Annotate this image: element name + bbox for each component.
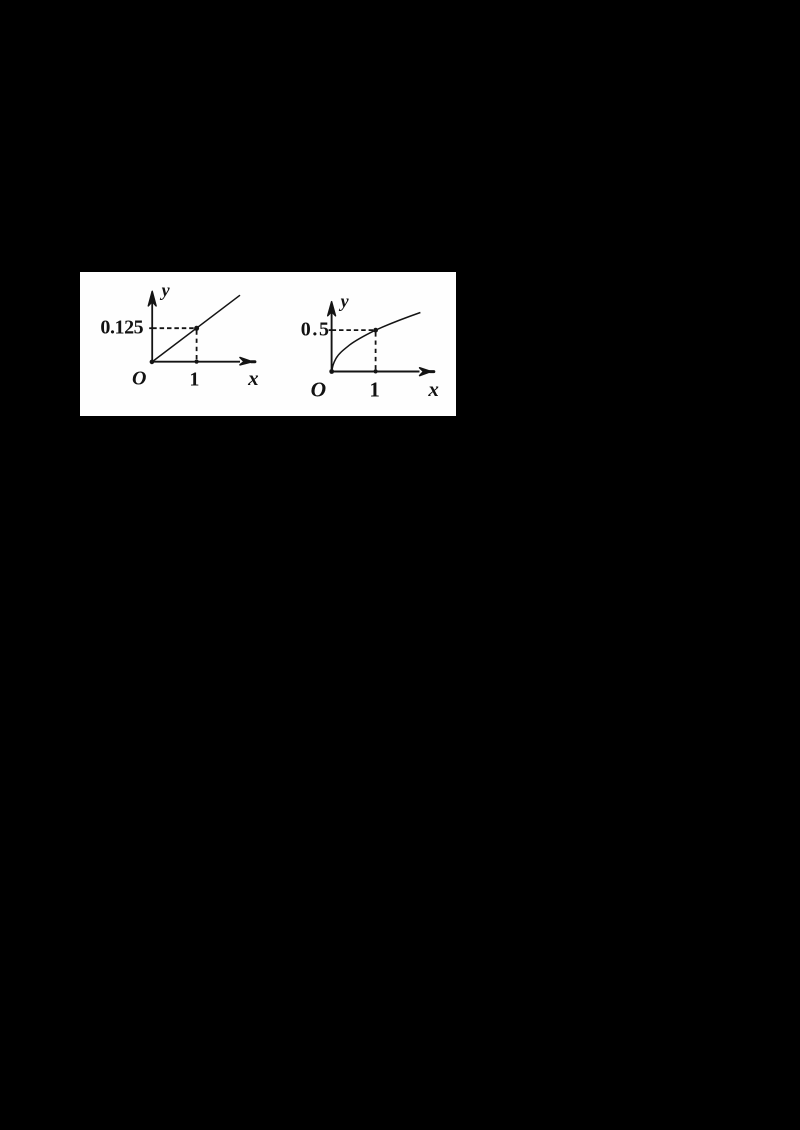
right x-axis [331, 371, 420, 373]
right curve y=0.5*sqrt(x) [332, 313, 421, 372]
right y-axis [331, 308, 333, 372]
right x-axis arrowhead [420, 368, 431, 376]
svg-text:0.125: 0.125 [100, 317, 143, 339]
left diagonal line y=0.125x [152, 295, 240, 362]
white figure panel [80, 272, 456, 416]
svg-text:y: y [339, 291, 350, 311]
right dashed vertical x=1 [375, 332, 377, 371]
svg-text:x: x [427, 377, 439, 401]
left x-axis [151, 361, 240, 363]
right origin dot [329, 369, 334, 374]
svg-text:O: O [311, 377, 327, 401]
svg-text:y: y [160, 280, 171, 300]
right dot on x-axis at x=1 [374, 369, 378, 373]
left y-axis [151, 298, 153, 362]
svg-text:0.5: 0.5 [301, 319, 331, 341]
left dashed horizontal y=0.125 [152, 327, 196, 329]
svg-text:1: 1 [369, 377, 380, 401]
svg-text:1: 1 [189, 369, 199, 391]
svg-text:x: x [247, 366, 259, 390]
left origin dot [150, 360, 155, 365]
left node at (1,0.125) [194, 326, 199, 331]
left y-axis arrowhead [148, 291, 156, 306]
right node at (1,0.5) [373, 328, 378, 333]
left tick on y-axis at 0.125 [149, 327, 152, 329]
right y-axis arrowhead [328, 302, 336, 316]
left x-axis arrow tip dash [250, 360, 257, 363]
right dashed horizontal y=0.5 [332, 329, 376, 331]
left dot on x-axis at x=1 [195, 360, 199, 364]
right x-axis arrow tip dash [428, 370, 435, 373]
right tick on y-axis at 0.5 [329, 329, 332, 331]
left dashed vertical x=1 [196, 330, 198, 361]
svg-text:O: O [132, 368, 146, 390]
left x-axis arrowhead [240, 358, 252, 365]
